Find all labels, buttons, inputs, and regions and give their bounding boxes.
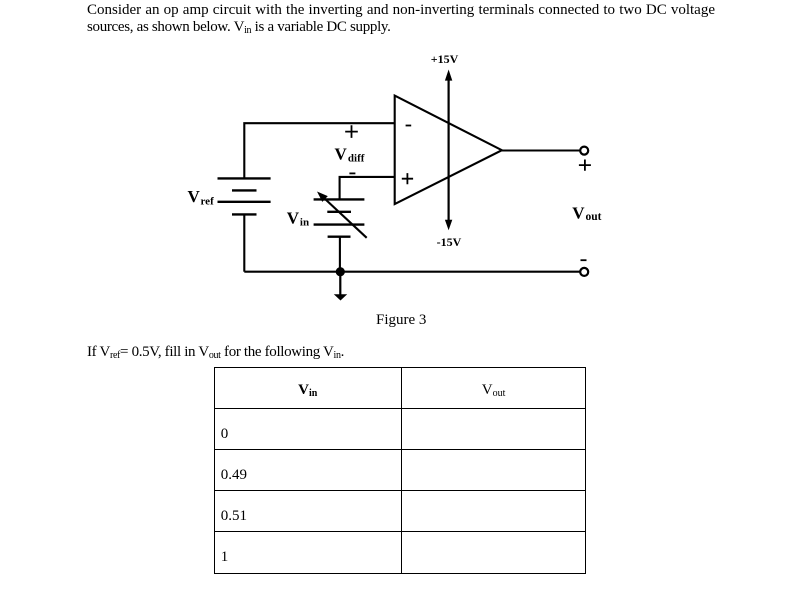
- variable arrow across Vin: [317, 192, 367, 238]
- label Vin: [287, 208, 309, 228]
- node Vdiff plus mark: [345, 125, 358, 138]
- label Vout: [572, 203, 601, 222]
- ground: [334, 272, 347, 301]
- svg-text:ref: ref: [201, 196, 215, 208]
- junction dot at ground node: [336, 267, 345, 276]
- svg-text:out: out: [586, 211, 602, 223]
- svg-text:V: V: [335, 144, 348, 163]
- wire bottom rail: [244, 271, 579, 273]
- wire from Vref positive plate to inverting input: [244, 123, 394, 178]
- wire op-amp output: [502, 149, 580, 151]
- label -15V: [437, 235, 462, 249]
- op-amp U1 inverting input minus mark: [406, 125, 412, 127]
- wire from Vin top plate to non-inverting input: [340, 177, 395, 200]
- svg-text:V: V: [188, 187, 201, 206]
- wire from Vref negative plate to bottom rail: [243, 214, 245, 271]
- svg-text:in: in: [300, 217, 309, 229]
- terminal Vout plus: [580, 147, 588, 155]
- wire from Vin bottom plate to bottom rail junction: [339, 237, 341, 272]
- terminal Vout minus: [580, 268, 588, 276]
- battery Vref: [218, 178, 271, 214]
- svg-text:V: V: [572, 203, 585, 222]
- battery Vin (variable): [314, 199, 365, 236]
- svg-text:-15V: -15V: [437, 235, 462, 249]
- arrowhead -15V supply: [445, 220, 452, 231]
- wire positive and negative supply rail through op-amp: [448, 78, 450, 222]
- svg-text:V: V: [287, 208, 300, 227]
- arrowhead +15V supply: [445, 70, 452, 81]
- plus mark at output terminal: [579, 160, 591, 171]
- label Vref: [188, 187, 215, 208]
- label +15V: [431, 52, 459, 66]
- op-amp U1 triangle: [395, 96, 502, 205]
- op-amp U1 non-inverting input plus mark: [402, 173, 413, 184]
- svg-text:diff: diff: [348, 153, 365, 165]
- label Vdiff: [335, 144, 365, 164]
- minus mark at lower output terminal: [581, 259, 587, 261]
- node Vdiff minus mark: [349, 172, 355, 174]
- svg-text:+15V: +15V: [431, 52, 459, 66]
